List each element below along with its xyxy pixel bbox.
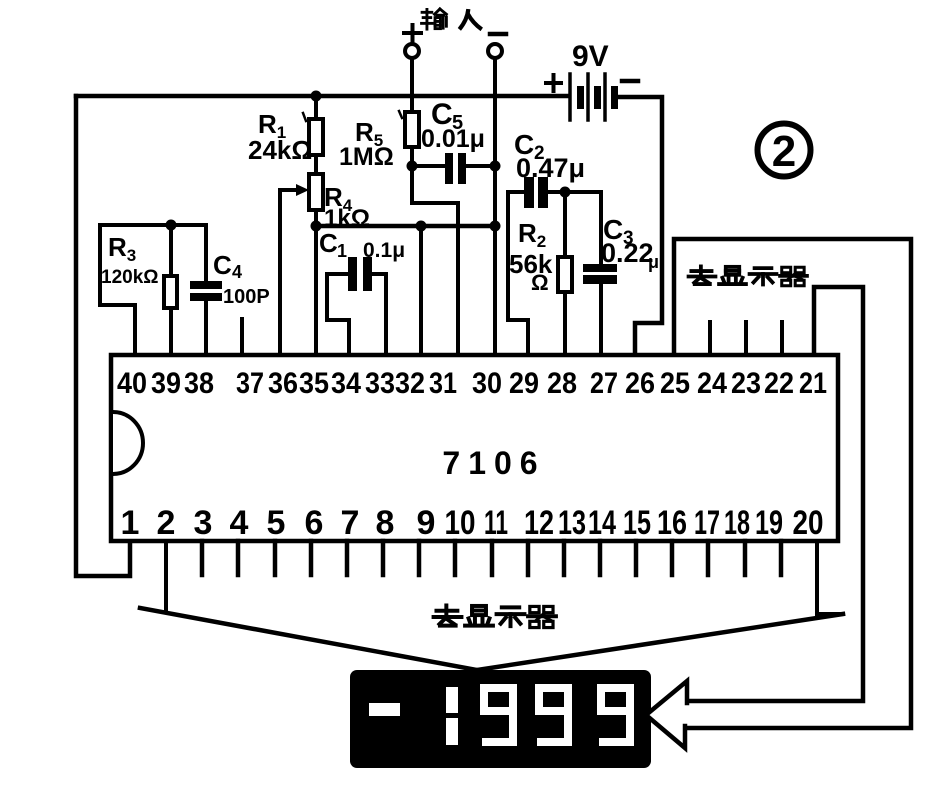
tick mark near R1 — [303, 113, 306, 121]
svg-text:0.22: 0.22 — [601, 238, 654, 268]
label C4 — [213, 250, 242, 282]
svg-text:2: 2 — [772, 127, 796, 176]
wire R5 to C5 node — [410, 147, 414, 166]
svg-text:7: 7 — [341, 504, 360, 542]
svg-text:28: 28 — [547, 367, 577, 400]
label 0.22u — [601, 238, 659, 272]
pin37 stub — [240, 319, 244, 354]
label C2 — [514, 129, 545, 164]
input plus sign — [404, 25, 421, 42]
figure number circle 2 — [758, 124, 811, 177]
wire R3 top lead — [169, 225, 173, 276]
label 0.1u — [363, 239, 405, 262]
wire bus to pin32 — [419, 226, 423, 354]
svg-text:C: C — [319, 228, 338, 258]
label R1 — [258, 109, 286, 142]
label R4 — [324, 182, 353, 215]
label 1M ohm — [339, 143, 394, 171]
input minus terminal — [488, 44, 502, 58]
pin numbers 40-21 — [117, 367, 827, 400]
label R5 — [355, 117, 383, 150]
node R3 top — [166, 220, 177, 231]
label C1 — [319, 228, 347, 261]
wire C2 net top — [508, 190, 524, 194]
arrow head to display — [646, 681, 687, 748]
IC U1 7106 body — [111, 355, 838, 541]
svg-text:31: 31 — [429, 367, 457, 400]
svg-text:Ω: Ω — [531, 270, 549, 295]
svg-text:30: 30 — [472, 367, 502, 400]
svg-text:36: 36 — [268, 367, 298, 400]
pin stubs 3-19 — [202, 541, 781, 575]
svg-text:32: 32 — [395, 367, 425, 400]
wire C4 top lead — [204, 225, 208, 281]
svg-text:13: 13 — [558, 504, 586, 542]
battery minus sign — [622, 79, 638, 84]
svg-text:34: 34 — [331, 367, 361, 400]
resistor R4 1k pot — [309, 174, 323, 210]
wire C2 right to C3 — [548, 190, 601, 194]
wire V+ top bus — [76, 94, 567, 99]
label C3 — [603, 214, 634, 249]
wire left loop pin1 — [76, 96, 130, 576]
pot wiper arrow — [280, 184, 309, 196]
svg-text:9: 9 — [417, 504, 436, 542]
svg-text:23: 23 — [731, 367, 761, 400]
svg-text:3: 3 — [194, 504, 213, 542]
svg-text:8: 8 — [376, 504, 395, 542]
wire C3 to pin27 — [599, 284, 603, 354]
svg-text:21: 21 — [799, 367, 827, 400]
capacitor C4 100P — [190, 281, 222, 301]
wire pin20 diagonal to display — [477, 614, 843, 670]
label R2 — [518, 218, 546, 251]
label 56k — [509, 249, 553, 279]
svg-text:18: 18 — [724, 504, 750, 542]
svg-text:33: 33 — [365, 367, 395, 400]
svg-text:2: 2 — [157, 504, 176, 542]
label C5 — [431, 98, 463, 134]
wire bus to pin35 — [314, 226, 318, 354]
battery plus sign — [546, 75, 561, 91]
pin1 stub — [128, 541, 132, 576]
wire C4 to pin38 — [204, 301, 208, 354]
wire pin2 diagonal to display — [140, 608, 477, 670]
node bus / minus wire — [490, 221, 501, 232]
svg-text:16: 16 — [657, 504, 687, 542]
resistor R3 120k — [164, 276, 177, 308]
svg-text:14: 14 — [588, 504, 616, 542]
svg-text:0.47μ: 0.47μ — [516, 153, 585, 183]
wire C5 right — [465, 164, 495, 168]
wire C1 right to pin33 — [372, 274, 386, 354]
pin23 stub — [744, 322, 748, 354]
pin22 stub — [780, 322, 784, 354]
capacitor C3 0.22u — [583, 264, 617, 284]
node C5 / minus wire — [490, 161, 501, 172]
wire wiper to pin36 — [278, 190, 282, 354]
svg-text:38: 38 — [184, 367, 214, 400]
svg-text:6: 6 — [305, 504, 324, 542]
svg-text:37: 37 — [236, 367, 264, 400]
wire pin21 to arrow top — [687, 287, 863, 701]
label to-display top — [689, 266, 807, 285]
battery B1 9V — [570, 74, 618, 120]
pin20 wire — [817, 541, 843, 614]
svg-text:39: 39 — [151, 367, 181, 400]
svg-text:22: 22 — [764, 367, 794, 400]
wire minus input to pin30 — [493, 58, 497, 354]
wire R3 left loop to pin40 — [100, 225, 135, 354]
label 24k ohm — [248, 135, 312, 165]
capacitor C5 0.01u — [445, 153, 466, 184]
svg-text:1: 1 — [121, 504, 140, 542]
pin numbers 1-20 — [121, 504, 824, 542]
svg-text:μ: μ — [648, 252, 659, 272]
IC notch — [113, 412, 143, 474]
pin2 wire — [164, 541, 168, 611]
wire R5 node jog to pin31 — [412, 166, 458, 354]
node R5/C5 — [407, 161, 418, 172]
svg-text:1MΩ: 1MΩ — [339, 143, 394, 171]
wire R4 to common bus — [314, 210, 318, 226]
resistor R5 1M — [405, 112, 419, 147]
label 1k ohm — [324, 205, 370, 232]
input minus sign — [490, 32, 506, 37]
svg-text:120kΩ: 120kΩ — [101, 267, 159, 288]
input plus terminal — [405, 44, 419, 58]
wire C1 left to pin34 — [327, 274, 349, 354]
capacitor C2 0.47u — [524, 177, 548, 208]
svg-text:1: 1 — [337, 241, 347, 261]
label 0.47u — [516, 153, 585, 183]
wire plus input to R5 — [410, 58, 414, 112]
svg-text:11: 11 — [484, 504, 508, 542]
wire R1 to R4 — [314, 155, 318, 174]
svg-text:5: 5 — [267, 504, 286, 542]
svg-text:20: 20 — [793, 504, 824, 542]
wire R2 to pin28 — [563, 292, 567, 354]
svg-text:0.1μ: 0.1μ — [363, 239, 405, 262]
resistor R2 56k — [558, 257, 572, 292]
wire R3 to pin39 — [169, 308, 173, 354]
wire R2 top lead — [563, 192, 567, 257]
label 9V — [572, 40, 609, 73]
wire display box outer — [674, 239, 911, 728]
svg-text:15: 15 — [623, 504, 651, 542]
svg-text:29: 29 — [509, 367, 539, 400]
svg-text:C: C — [213, 250, 232, 280]
svg-text:12: 12 — [524, 504, 554, 542]
pin24 stub — [708, 322, 712, 354]
wire top bus to R1 — [314, 96, 318, 119]
wire C2 left loop to pin29 — [508, 192, 528, 354]
display DS1 -1999 — [350, 670, 651, 768]
svg-text:24: 24 — [697, 367, 727, 400]
wire battery minus to pin26 — [618, 97, 662, 354]
node top bus / R1 — [311, 91, 322, 102]
label 7106 — [442, 445, 545, 481]
svg-text:7106: 7106 — [442, 445, 545, 481]
svg-text:25: 25 — [660, 367, 690, 400]
svg-text:10: 10 — [445, 504, 476, 542]
label ohm R2 — [531, 270, 549, 295]
wire analog common bus — [316, 224, 495, 229]
svg-text:4: 4 — [230, 504, 249, 542]
label R3 — [108, 232, 136, 265]
resistor R1 24k — [309, 119, 323, 155]
wire R3 top net — [100, 223, 206, 227]
label 0.01u — [421, 125, 485, 153]
svg-text:35: 35 — [299, 367, 329, 400]
label shuru input — [422, 9, 482, 29]
svg-text:40: 40 — [117, 367, 147, 400]
svg-text:0.01μ: 0.01μ — [421, 125, 485, 153]
svg-text:9V: 9V — [572, 40, 609, 73]
wire C3 top lead — [599, 192, 603, 265]
svg-text:19: 19 — [755, 504, 783, 542]
label 100P — [223, 286, 270, 308]
svg-text:26: 26 — [625, 367, 655, 400]
label 120k ohm — [101, 267, 159, 288]
node R2 top — [560, 187, 571, 198]
svg-text:24kΩ: 24kΩ — [248, 135, 312, 165]
svg-text:17: 17 — [694, 504, 720, 542]
label to-display bottom — [434, 605, 556, 627]
node bus / R4 — [311, 221, 322, 232]
wire C5 left — [412, 164, 446, 168]
node bus / pin32 — [416, 221, 427, 232]
tick mark near R5 — [399, 111, 402, 118]
capacitor C1 0.1u — [348, 257, 372, 291]
svg-text:100P: 100P — [223, 286, 270, 308]
svg-text:4: 4 — [232, 262, 242, 282]
svg-text:27: 27 — [590, 367, 618, 400]
